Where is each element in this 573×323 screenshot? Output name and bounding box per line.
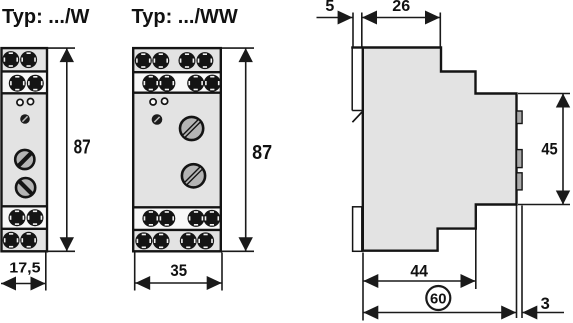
terminal bump 3 <box>517 173 523 190</box>
side view body <box>363 48 517 251</box>
terminals module WW row4 <box>135 232 152 249</box>
big screw 1 module W <box>15 150 34 169</box>
terminals module W row4 <box>3 232 20 249</box>
module W outline <box>2 48 48 251</box>
dimension 87 middle module <box>222 48 255 251</box>
terminals module W row1 <box>2 51 19 68</box>
svg-text:5: 5 <box>325 0 334 15</box>
svg-text:17,5: 17,5 <box>9 260 40 277</box>
terminals module WW row2 <box>142 75 159 92</box>
terminal bump 2 <box>517 150 523 168</box>
svg-text:87: 87 <box>252 142 272 164</box>
dimension 35 <box>135 253 222 291</box>
svg-text:44: 44 <box>410 261 428 280</box>
small screw module WW <box>152 114 163 125</box>
svg-text:35: 35 <box>170 261 187 280</box>
dimension 60 (circled) <box>363 312 516 314</box>
svg-text:45: 45 <box>541 141 557 159</box>
LEDs module W <box>17 99 23 105</box>
top edge extension over flange <box>351 46 363 48</box>
dimension 17,5 <box>1 253 46 291</box>
dimension 5 <box>317 13 362 47</box>
svg-text:87: 87 <box>74 137 91 159</box>
terminals module W row2 <box>9 75 26 92</box>
dimension 45 <box>518 94 570 205</box>
dimension 3 <box>517 206 565 319</box>
terminals module W row3 <box>9 209 26 226</box>
svg-text:26: 26 <box>392 0 410 15</box>
big screw 2 module W <box>16 178 35 197</box>
flange diagonal detail <box>352 112 362 122</box>
svg-text:Typ: .../W: Typ: .../W <box>2 6 90 28</box>
dimension 26 <box>362 13 440 47</box>
terminals module WW row1 <box>135 52 152 69</box>
LEDs module WW <box>150 99 156 105</box>
terminals module WW row3 <box>142 210 159 227</box>
small screw module W <box>20 114 30 124</box>
svg-text:60: 60 <box>430 290 447 307</box>
module WW outline <box>133 48 221 251</box>
terminal bump 1 <box>517 111 523 124</box>
big screw 1 module WW <box>180 117 203 140</box>
bottom clip rectangle <box>353 207 362 252</box>
DIN flange top strip <box>352 48 362 111</box>
svg-text:3: 3 <box>541 295 550 313</box>
dimension 44 <box>363 206 476 321</box>
dimension 87 left module <box>46 48 75 251</box>
big screw 2 module WW <box>182 164 205 187</box>
svg-text:Typ: .../WW: Typ: .../WW <box>132 6 238 28</box>
